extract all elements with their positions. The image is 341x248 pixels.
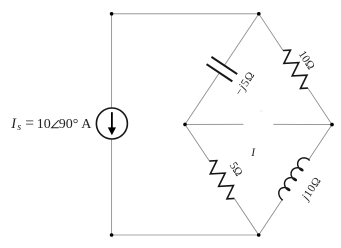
svg-text:10: 10 [37,117,51,132]
svg-text:j10Ω: j10Ω [299,175,324,204]
svg-text:I: I [10,116,17,132]
svg-text:I: I [250,147,256,159]
svg-text:5Ω: 5Ω [227,160,245,178]
svg-text:90°: 90° [59,117,79,132]
svg-text:A: A [81,117,92,132]
svg-text:s: s [17,122,21,133]
svg-text:10Ω: 10Ω [296,49,317,72]
svg-text:=: = [25,115,34,132]
